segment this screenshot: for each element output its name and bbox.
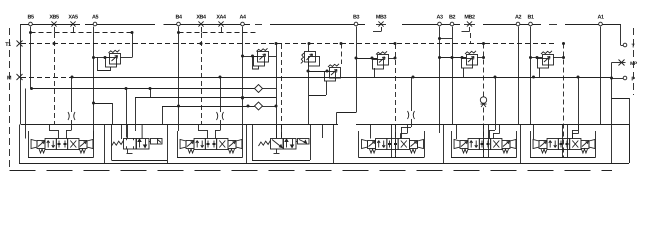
svg-text:B3: B3	[353, 15, 359, 21]
svg-text:A5: A5	[92, 15, 98, 21]
svg-text:B5: B5	[27, 15, 33, 21]
svg-text:XB5: XB5	[49, 15, 59, 21]
svg-text:T1: T1	[5, 42, 11, 48]
svg-text:B1: B1	[527, 15, 533, 21]
svg-text:A3: A3	[436, 15, 442, 21]
svg-text:B4: B4	[175, 15, 181, 21]
svg-text:B2: B2	[449, 15, 455, 21]
svg-text:XA4: XA4	[216, 15, 226, 21]
svg-text:XB4: XB4	[196, 15, 206, 21]
svg-text:MB3: MB3	[376, 15, 387, 21]
svg-text:MB2: MB2	[464, 15, 475, 21]
svg-text:MP: MP	[630, 61, 638, 67]
svg-text:A2: A2	[515, 15, 521, 21]
svg-text:A1: A1	[597, 15, 603, 21]
svg-text:XA5: XA5	[68, 15, 78, 21]
svg-text:A4: A4	[239, 15, 245, 21]
